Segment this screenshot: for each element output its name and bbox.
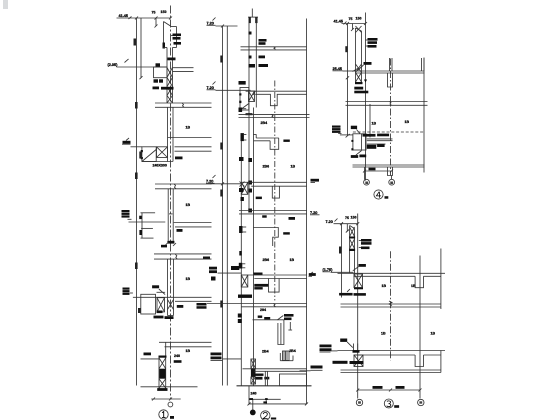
- slab A break: [182, 103, 184, 107]
- short dim drop: [155, 18, 157, 26]
- s4 wall right face: [361, 31, 363, 64]
- witness b: [265, 399, 267, 404]
- f9 text b: [264, 317, 270, 319]
- s4 tick 365: [364, 22, 367, 25]
- s4 leader diag b: [357, 130, 360, 134]
- wall L tie 2: [248, 181, 252, 185]
- slab26 bottom: [242, 306, 307, 308]
- s3 level 1.75 underline: [323, 271, 331, 273]
- f4 wall bottom: [168, 315, 174, 317]
- s3 tick b: [356, 222, 359, 225]
- svg-text:150: 150: [161, 10, 167, 14]
- joint sub text: [246, 113, 253, 115]
- tie bracket f2b tick: [242, 108, 246, 110]
- f2 xbox d1: [157, 147, 168, 158]
- s4 dim tick R: [390, 170, 393, 173]
- f9 side bracket: [289, 322, 291, 330]
- bottom wall x2: [251, 377, 256, 384]
- F4b elev right underline: [311, 182, 316, 184]
- F4b joint xbox: [241, 182, 248, 194]
- label row A1: [173, 34, 182, 37]
- s3 level label2 r2: [320, 348, 332, 351]
- base bottom cap: [157, 388, 167, 391]
- tie tick a1: [244, 134, 247, 136]
- s3 bubble L text: [358, 401, 361, 403]
- rot dim text 2: [220, 143, 222, 150]
- joint x d2: [249, 91, 255, 102]
- s4 slab top: [356, 70, 425, 72]
- s4 elev tick: [344, 22, 347, 25]
- s4 beam line r3: [367, 143, 386, 145]
- mid label underline b: [207, 89, 216, 91]
- f4 sub text 1: [154, 316, 164, 319]
- s3 right edge b: [440, 351, 442, 373]
- tick at 136: [135, 17, 138, 20]
- f2 box tick 1: [141, 150, 143, 152]
- slab25 end tick: [309, 272, 313, 275]
- svg-text:1B: 1B: [411, 284, 416, 288]
- base wall right: [165, 342, 167, 390]
- tie tick a2: [244, 139, 247, 141]
- f2 xbox: [157, 147, 168, 158]
- s1 bdim tick L: [152, 398, 155, 401]
- f4 wall right face: [173, 259, 175, 315]
- s3 wall2 segment: [353, 344, 355, 351]
- f4 leader diag: [159, 289, 165, 295]
- s4 dim tick L: [363, 170, 366, 173]
- line f11 bottom: [255, 370, 307, 372]
- detail number 1: [162, 412, 166, 418]
- s3 joint xb d2: [354, 355, 363, 367]
- parapet cap right face: [176, 27, 178, 48]
- s4 grid bubble R: [389, 179, 395, 185]
- L-beam neck: [255, 135, 257, 139]
- s3 leader tick1: [359, 240, 361, 242]
- dim tick a: [221, 25, 224, 28]
- f4 leader label: [152, 285, 159, 288]
- s4 f2 label band a: [363, 134, 376, 137]
- wall tie mark 1: [249, 32, 252, 35]
- detail number 3 circle: [384, 399, 393, 408]
- level line 2.05: [117, 66, 168, 68]
- s3 level line2: [331, 350, 338, 352]
- f4 level line: [133, 296, 174, 298]
- f4 slab bot right: [175, 300, 212, 302]
- slab23 bottom: [239, 213, 307, 215]
- s3 level label2 r1: [320, 345, 332, 348]
- F4b slab top: [248, 181, 307, 183]
- chain value blob: [211, 277, 216, 281]
- f4 big box: [141, 294, 156, 314]
- wall tie mark 3: [249, 64, 256, 68]
- svg-text:1B: 1B: [431, 331, 436, 335]
- label underline c: [206, 182, 215, 184]
- elevation right c line: [300, 370, 311, 372]
- svg-text:75: 75: [345, 216, 349, 220]
- base x2 d2: [159, 379, 166, 388]
- f3 wall end blob: [167, 241, 174, 244]
- top level line 41.45: [117, 17, 171, 19]
- dim s2b tick R: [305, 402, 308, 405]
- s4 beam line r2: [367, 140, 393, 142]
- top level line: [216, 25, 238, 27]
- svg-text:1B: 1B: [186, 277, 191, 281]
- joint xbox 2: [249, 91, 255, 102]
- f7 leader texts: [254, 273, 263, 276]
- tie label 3: [259, 64, 269, 67]
- f3 rot blob 1: [139, 216, 142, 219]
- slab end hatch: [253, 91, 255, 95]
- base wall left: [158, 356, 160, 391]
- svg-text:1B: 1B: [372, 122, 377, 126]
- slab23 label: [289, 217, 296, 220]
- F8 level label r2: [197, 306, 207, 309]
- s3 level line 1.75: [331, 271, 354, 273]
- bottom wall x1 d2: [251, 359, 256, 369]
- s3 beam stub a: [415, 276, 423, 287]
- joint mark c: [240, 182, 245, 187]
- level label 25.45: [123, 141, 131, 144]
- dim line s2b: [249, 403, 307, 405]
- s4 joint label: [364, 62, 372, 65]
- f9 text a: [258, 316, 263, 318]
- s3 joint xbox: [354, 274, 363, 288]
- base label right2: [174, 360, 182, 363]
- elevation right underline: [310, 214, 320, 216]
- slab C side label: [203, 257, 210, 260]
- beam vert b: [267, 371, 269, 386]
- s1 bottom dim line: [151, 398, 181, 400]
- level label d r1: [209, 267, 217, 270]
- f7 label 300x600: [254, 284, 268, 287]
- s4 witness L: [364, 167, 366, 180]
- f1 wall xhatch b1: [167, 78, 173, 87]
- f2 label right: [175, 157, 183, 160]
- f4 rot text: [138, 308, 141, 313]
- elevation right c: [311, 366, 323, 369]
- tie mark x237 d: [238, 314, 242, 318]
- svg-text:75: 75: [152, 11, 156, 15]
- dim s2b tick L: [248, 402, 251, 405]
- tie mark x237 e: [238, 319, 242, 323]
- f3 end tick R: [173, 243, 176, 246]
- chain rot text 2: [135, 173, 138, 180]
- grid bubble 1: [168, 402, 173, 407]
- s4 level line 25.45: [343, 70, 356, 72]
- s1 bdim tick R: [169, 398, 172, 401]
- svg-text:1B: 1B: [382, 284, 387, 288]
- wall upper right face: [172, 48, 174, 104]
- s4 f2 label band b: [377, 134, 389, 137]
- s4 wall stub aR: [391, 58, 393, 71]
- leader A: [171, 35, 173, 37]
- slab26 top: [207, 303, 307, 305]
- s3 wall xhatch 2b: [350, 239, 355, 249]
- f1 sub text 2: [161, 87, 174, 90]
- detail number 1 circle: [159, 410, 168, 419]
- f1 box: [154, 67, 168, 78]
- f9 step inner: [280, 323, 282, 345]
- s4 box tick 1: [351, 140, 353, 142]
- ground line 1: [141, 386, 198, 388]
- f4 wall left face: [167, 259, 169, 315]
- top label underline: [207, 24, 216, 26]
- s3 label r1: [361, 239, 372, 242]
- svg-text:7.20: 7.20: [326, 220, 333, 224]
- joint xbox 237 b: [241, 275, 248, 287]
- f2 beam top line: [168, 137, 212, 139]
- rot dim text 3: [220, 190, 222, 197]
- f7 label small: [254, 287, 262, 289]
- dim chain a: [222, 26, 224, 386]
- f3 bracket tick top: [141, 212, 156, 214]
- s4 dim vertical: [347, 24, 349, 136]
- s4 floor2 bottom: [346, 104, 428, 106]
- slab22 bottom: [239, 117, 310, 119]
- s3 bubble R text: [419, 401, 422, 403]
- L-beam line2: [254, 140, 270, 142]
- wall f2 right face: [172, 107, 174, 161]
- s4 wall stub aL: [389, 58, 391, 71]
- witness a: [248, 386, 250, 404]
- beam stub U: [269, 279, 280, 293]
- f3 wall right face: [172, 189, 174, 241]
- scale blob 2: [271, 418, 276, 420]
- svg-text:1B: 1B: [405, 120, 410, 124]
- s3 label r2: [361, 242, 372, 245]
- svg-text:(2.05): (2.05): [108, 63, 119, 67]
- f2 joint box diag: [240, 104, 249, 111]
- slab21 top: [241, 46, 307, 48]
- s4 slab bottom: [356, 72, 425, 74]
- s4 beam stub b: [388, 167, 393, 176]
- f3 label r3: [122, 215, 130, 217]
- s4 f2 box inner: [361, 134, 363, 150]
- f7 bracket tick: [242, 263, 245, 265]
- f3 bracket tick mid: [141, 227, 153, 229]
- bottom wall x1: [251, 359, 256, 369]
- svg-text:1B: 1B: [290, 258, 295, 262]
- bw label 0: [256, 374, 264, 376]
- dim s2a tick L: [249, 398, 253, 400]
- f4 level label r2: [123, 290, 130, 292]
- hatch box f10: [283, 351, 290, 361]
- slab B break: [174, 184, 176, 189]
- joint xbox 237 b d1: [241, 275, 248, 287]
- s4 tick 347: [346, 22, 349, 25]
- slab B bottom: [155, 188, 212, 190]
- s4 floor2 break: [390, 102, 392, 106]
- f9 side bracket tick: [288, 329, 292, 331]
- parapet top tick: [171, 26, 177, 28]
- f4 xbox: [157, 298, 165, 312]
- f7 bracket above: [239, 263, 243, 269]
- level label e underline: [211, 360, 223, 362]
- s3 wall xhatch 1b: [350, 227, 355, 237]
- f3 label underline: [128, 218, 132, 220]
- s4 label r1: [368, 38, 378, 41]
- s3 slab2 bottom: [354, 354, 416, 356]
- label row A3: [174, 42, 182, 45]
- s4 f2 sub1: [351, 155, 358, 158]
- s4 label r3: [368, 45, 377, 48]
- f7 level line2: [218, 272, 242, 274]
- s4 chain tick: [346, 76, 349, 79]
- base solid blob: [159, 369, 165, 379]
- s3 leader tick2: [359, 247, 361, 249]
- elevation right b: [309, 273, 316, 276]
- svg-text:1B: 1B: [186, 203, 191, 207]
- f2 slab bot right: [175, 150, 212, 152]
- joint x d1: [249, 91, 255, 102]
- L-beam line1: [256, 137, 279, 139]
- f3 rot blob 2: [139, 230, 142, 235]
- elevation right c underline: [311, 369, 323, 371]
- s3 dim vertical: [341, 224, 343, 298]
- svg-text:150: 150: [351, 216, 357, 220]
- s3 wall left face: [349, 226, 351, 274]
- s4 box tick 2: [351, 148, 353, 150]
- f2 box diag: [142, 150, 156, 162]
- dimension chain line left: [136, 18, 138, 386]
- F4b tie blob: [241, 197, 244, 201]
- s4 f2 box: [353, 134, 366, 150]
- s3 axis line: [357, 214, 359, 399]
- base x1 d2: [159, 358, 166, 369]
- slab22 top: [239, 113, 310, 115]
- s4 slab3 top: [353, 164, 425, 166]
- f10 box bottom: [280, 360, 293, 362]
- mid label tick b: [213, 82, 216, 85]
- tie mark x237 c: [239, 188, 244, 192]
- dim s2a tick R: [265, 398, 268, 400]
- s4 wall face below: [369, 104, 371, 137]
- wall f2 left face: [167, 107, 169, 161]
- scale blob 4: [385, 196, 389, 199]
- s4 joint xcell 1b: [356, 64, 362, 73]
- slab D top: [159, 341, 212, 343]
- slab21 bottom: [241, 49, 307, 51]
- s4 beam line r1: [367, 138, 393, 140]
- leader label f2: [239, 81, 246, 85]
- s3 wide2 top: [341, 369, 441, 371]
- slab23 small label: [262, 215, 267, 217]
- s4 joint xcell 2a: [356, 73, 362, 83]
- f3 floor line right: [174, 222, 212, 224]
- F4b elev right: [311, 179, 320, 182]
- s4 f2 label r1: [367, 145, 377, 149]
- s3 wall right face: [354, 229, 356, 274]
- s3 wall band 2: [349, 249, 355, 251]
- f7 wall text: [231, 266, 239, 270]
- f4 slab top right: [174, 296, 212, 298]
- joint xbox 237 b d2: [241, 275, 248, 287]
- s4 label r2: [368, 41, 378, 44]
- s3 rot dim text: [339, 247, 341, 254]
- s3 dim tick c: [347, 289, 350, 292]
- s4 short drop: [352, 24, 354, 30]
- scale blob 1: [170, 416, 174, 419]
- s3 dimb text2: [396, 386, 405, 389]
- tie bracket f2b: [239, 108, 243, 113]
- hatch lines f10: [284, 351, 287, 361]
- s4 joint xcell 2b: [356, 73, 362, 83]
- F4b leader label: [256, 197, 262, 200]
- s4 level label b r2: [332, 128, 341, 130]
- ceiling line f2 top: [246, 90, 307, 92]
- svg-text:1B: 1B: [186, 349, 191, 353]
- s3 leader2 diag: [347, 342, 353, 348]
- s3 dimb tick M: [389, 389, 392, 392]
- tie bracket F6 blob: [239, 226, 242, 233]
- f1 dim seg: [140, 67, 142, 78]
- s3 dim line bottom: [358, 389, 420, 391]
- s3 leader label2: [340, 339, 347, 342]
- f3 bracket tick bot: [141, 237, 154, 239]
- s4 joint leader: [358, 65, 364, 71]
- level line c: [211, 183, 242, 185]
- detail number 2 circle: [261, 411, 270, 420]
- wall L tie 4: [248, 209, 252, 213]
- f3 wall left face: [167, 189, 169, 241]
- f3 dim bracket: [141, 213, 143, 239]
- cap hatch right: [255, 17, 257, 23]
- footing rect: [280, 374, 307, 386]
- cap hatch left: [249, 17, 251, 23]
- s3 wall xhatch 1: [350, 227, 355, 237]
- wall face R: [255, 17, 257, 107]
- wall L tie 1: [248, 158, 252, 162]
- base x2 d1: [159, 379, 166, 388]
- bottom wall x2 d2: [251, 377, 256, 384]
- s4 wall left face: [355, 28, 357, 82]
- f1 wall xhatch a2: [167, 68, 173, 78]
- f2 xbox d2: [157, 147, 168, 158]
- scale blob 3: [394, 405, 399, 408]
- s3 grid bubble L: [356, 399, 362, 405]
- f3 end sub text: [161, 245, 167, 248]
- joint mark c2: [240, 182, 245, 187]
- dim chain b: [226, 26, 228, 386]
- slab22 break: [272, 114, 274, 117]
- s3 drop tick: [346, 230, 349, 233]
- s3 centerline: [390, 251, 392, 360]
- s4 joint xcell 1a: [356, 64, 362, 73]
- wall tie mark 2: [249, 56, 252, 59]
- s4 wall stub bR: [423, 58, 425, 71]
- s4 level label b r3: [332, 131, 341, 133]
- bw label 1: [256, 377, 263, 380]
- svg-text:2B6: 2B6: [263, 258, 270, 262]
- elevation right b underline: [309, 275, 313, 277]
- s4 wall xcell d2: [356, 26, 362, 33]
- s3 wide1 top: [341, 303, 441, 305]
- f4 label right: [177, 305, 184, 308]
- s3 corner blob: [353, 350, 360, 353]
- chain rot text 3: [135, 263, 138, 270]
- level label tick: [126, 138, 129, 141]
- s4 witness R: [391, 176, 393, 180]
- f2 box tick 2: [141, 157, 143, 159]
- s4 dim text: [369, 168, 376, 171]
- s3 wall top slant: [350, 226, 355, 229]
- s3 joint band: [354, 288, 363, 290]
- bottom wall x2 d1: [251, 377, 256, 384]
- detail number 4: [376, 192, 381, 198]
- witness d: [252, 399, 254, 409]
- f2 slab top right: [175, 146, 212, 148]
- bw label 2: [264, 377, 269, 380]
